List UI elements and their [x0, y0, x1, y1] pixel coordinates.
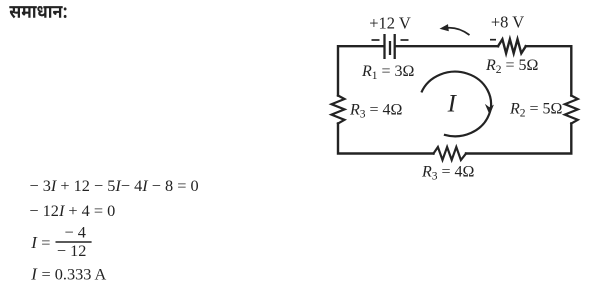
resistor R3 left zigzag [332, 96, 345, 124]
svg-text:R2 = 5Ω: R2 = 5Ω [509, 101, 563, 120]
resistor R2 top zigzag [498, 39, 526, 53]
loop arrowhead [485, 104, 494, 115]
svg-text:I: I [447, 91, 458, 118]
svg-text:R1 = 3Ω: R1 = 3Ω [361, 63, 415, 82]
svg-text:=: = [41, 233, 50, 252]
svg-text:− 12: − 12 [57, 241, 87, 260]
wire top-left + left upper [338, 46, 384, 95]
svg-text:I: I [30, 264, 38, 283]
svg-text:R2 = 5Ω: R2 = 5Ω [485, 57, 539, 76]
resistor R3 bottom zigzag [434, 147, 467, 160]
wire right upper + top right [526, 46, 572, 95]
heading समाधान: [9, 6, 66, 18]
svg-text:− 4: − 4 [65, 223, 86, 242]
svg-text:+8 V: +8 V [491, 13, 524, 32]
top direction arrow [446, 28, 470, 35]
svg-text:− 12I + 4 = 0: − 12I + 4 = 0 [29, 201, 115, 220]
svg-text:− 3I + 12 − 5I− 4I − 8 = 0: − 3I + 12 − 5I− 4I − 8 = 0 [30, 176, 199, 195]
wire top middle (battery to R2) [396, 45, 498, 47]
wire bottom right + right lower [466, 124, 571, 154]
svg-text:R3 = 4Ω: R3 = 4Ω [349, 101, 403, 120]
battery minus signs [372, 39, 380, 41]
battery B1 (+12 V) plates [383, 34, 385, 59]
svg-text:+12 V: +12 V [369, 14, 411, 33]
current loop arrow arc [421, 72, 491, 137]
wire left lower + bottom left [338, 124, 434, 154]
resistor minus sign top right [490, 39, 496, 41]
svg-text:= 0.333 A: = 0.333 A [42, 264, 107, 283]
resistor R2 right zigzag [565, 96, 578, 124]
svg-text:I: I [30, 233, 38, 252]
svg-text:R3 = 4Ω: R3 = 4Ω [421, 164, 475, 183]
